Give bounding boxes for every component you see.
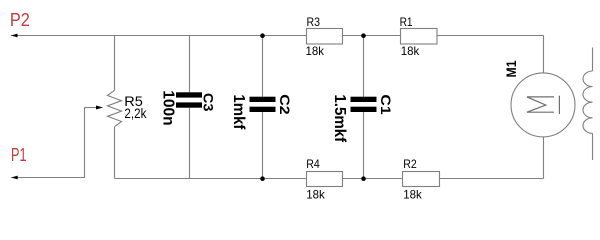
- capacitor C3: [176, 92, 202, 107]
- value 100n: [159, 90, 176, 126]
- svg-text:P2: P2: [10, 9, 30, 30]
- svg-text:2,2k: 2,2k: [124, 106, 146, 121]
- resistor R2: [403, 172, 440, 187]
- label R2: [403, 157, 417, 171]
- wire top rail with P2 arrow: [11, 34, 544, 38]
- wire C2 top branch: [262, 36, 264, 97]
- svg-text:M1: M1: [503, 60, 519, 77]
- label M1: [503, 60, 519, 77]
- svg-text:18k: 18k: [306, 187, 325, 201]
- svg-text:R3: R3: [307, 15, 321, 29]
- motor M1 circle: [511, 73, 575, 137]
- svg-text:18k: 18k: [401, 44, 420, 58]
- resistor R5 (potentiometer zigzag): [108, 90, 122, 126]
- svg-text:P1: P1: [11, 144, 27, 165]
- svg-text:100n: 100n: [159, 90, 176, 126]
- value 18k under R1: [401, 44, 420, 58]
- node P2 label: [10, 9, 30, 30]
- value 1mkf: [230, 94, 247, 130]
- capacitor C2: [250, 97, 276, 112]
- junction dot top C2: [260, 33, 265, 38]
- R5 wiper arrow from P1: [85, 106, 104, 110]
- wire motor top stem: [543, 36, 545, 74]
- svg-text:R4: R4: [306, 157, 320, 171]
- capacitor C1: [351, 97, 377, 112]
- label R4: [306, 157, 320, 171]
- svg-text:C3: C3: [201, 93, 217, 112]
- svg-text:18k: 18k: [306, 44, 325, 58]
- wire bottom rail: [115, 178, 544, 180]
- svg-text:18k: 18k: [403, 187, 422, 201]
- value 1.5mkf: [331, 94, 348, 142]
- value 18k under R4: [306, 187, 325, 201]
- svg-text:R1: R1: [400, 15, 413, 29]
- wire C2 bottom branch: [262, 112, 264, 179]
- label R1: [400, 15, 413, 29]
- resistor R1: [401, 29, 438, 45]
- junction dot bottom C2: [260, 176, 265, 181]
- wire C1 top branch: [363, 36, 365, 97]
- svg-text:R2: R2: [403, 157, 417, 171]
- label C2: [277, 94, 293, 115]
- wire P1 lead: [11, 108, 84, 180]
- value 2,2k: [124, 106, 146, 121]
- junction dot bottom C1: [361, 176, 366, 181]
- label C1: [378, 94, 394, 115]
- wire C1 bottom branch: [363, 112, 365, 179]
- label R3: [307, 15, 321, 29]
- junction dot top C1: [361, 33, 366, 38]
- inductor coil L: [583, 48, 593, 161]
- value 18k under R2: [403, 187, 422, 201]
- wire motor bottom stem: [543, 137, 545, 179]
- resistor R4: [307, 172, 343, 187]
- value 18k under R3: [306, 44, 325, 58]
- wire C3 bottom branch: [189, 108, 191, 179]
- wire C3 top branch: [189, 36, 191, 93]
- motor M glyph (rotated M with underline): [527, 96, 560, 114]
- wire R5 bottom branch: [114, 127, 116, 179]
- label R5: [124, 93, 143, 109]
- resistor R3: [307, 29, 343, 45]
- svg-text:C1: C1: [378, 94, 394, 115]
- node P1 label: [11, 144, 27, 165]
- wire R5 top branch: [114, 36, 116, 91]
- svg-text:1mkf: 1mkf: [230, 94, 247, 130]
- svg-text:C2: C2: [277, 94, 293, 115]
- label C3: [201, 93, 217, 112]
- svg-text:1.5mkf: 1.5mkf: [331, 94, 348, 142]
